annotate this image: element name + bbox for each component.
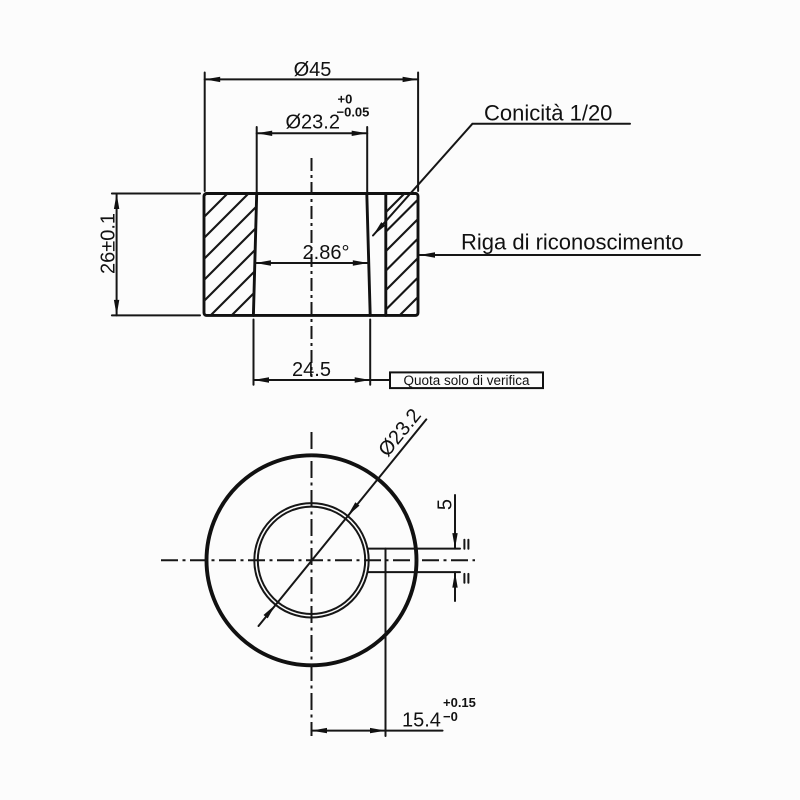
bottom view: outer circle: [207, 455, 417, 665]
dimension Ø23.2 top: dimension line with arrows: [257, 131, 368, 136]
dimension 15.4: tolerance +0.15 / -0: [443, 695, 476, 724]
svg-text:Quota solo di verifica: Quota solo di verifica: [403, 373, 530, 388]
dimension 5: value text (rotated): [435, 499, 457, 510]
svg-text:24.5: 24.5: [292, 359, 331, 381]
section: slot edge line: [384, 194, 387, 316]
bottom view: horizontal centerline: [161, 559, 475, 561]
slot: end edge / extension line: [385, 549, 387, 736]
slot: bottom edge line: [368, 571, 460, 573]
leader Riga di riconoscimento: line and arrow: [420, 252, 701, 257]
dimension Ø23.2 top: tolerance +0 / -0.05: [337, 92, 370, 120]
dimension 2.86 deg: dimension line with arrows: [255, 260, 368, 265]
svg-text:Ø23.2: Ø23.2: [286, 112, 340, 134]
note box connector: [370, 379, 390, 381]
svg-text:15.4: 15.4: [402, 710, 441, 732]
svg-text:2.86°: 2.86°: [303, 242, 350, 264]
leader Conicita 1/20: label text: [484, 101, 612, 126]
svg-text:Conicità 1/20: Conicità 1/20: [484, 101, 612, 126]
section: bore left wall (tapered): [253, 194, 256, 316]
dimension 26+-0.1: extension lines: [112, 194, 200, 316]
section view: part outline: [204, 194, 418, 316]
dimension 5: upper dimension line with arrow: [452, 495, 457, 549]
dimension 15.4: value text: [402, 710, 441, 732]
dimension Ø45: dimension line with arrows: [205, 77, 418, 82]
dimension Ø23.2 bottom: diagonal leader line: [259, 419, 427, 626]
symmetry marks (double ticks) upper: [464, 540, 468, 549]
dimension 2.86 deg: value text: [303, 242, 350, 264]
dimension Ø23.2 top: extension lines: [257, 127, 368, 192]
svg-text:5: 5: [435, 499, 457, 510]
svg-text:+0.15: +0.15: [443, 695, 476, 710]
dimension Ø45: value text: [294, 59, 332, 81]
leader Conicita 1/20: leader line and arrow: [373, 124, 630, 236]
dimension 26+-0.1: value text (rotated): [98, 213, 120, 274]
section: vertical centerline: [311, 158, 313, 377]
bottom view: vertical centerline: [311, 432, 313, 736]
dimension 24.5: value text: [292, 359, 331, 381]
slot: top edge line: [368, 548, 460, 550]
svg-text:−0.05: −0.05: [337, 105, 370, 120]
dimension 24.5: dimension line with arrows: [254, 377, 371, 382]
leader Riga di riconoscimento: label text: [461, 230, 684, 255]
dimension 5: lower dimension line with arrow: [452, 572, 457, 601]
svg-text:Ø45: Ø45: [294, 59, 332, 81]
dimension 26+-0.1: dimension line with arrows: [114, 194, 119, 316]
dimension 15.4: dimension line with arrows: [312, 728, 443, 733]
symmetry marks (double ticks) lower: [464, 574, 468, 583]
dimension 24.5: extension lines: [254, 320, 371, 385]
bottom view: bore circle Ø24.5: [254, 503, 368, 617]
bottom view: bore circle Ø23.2: [258, 507, 365, 614]
dimension Ø23.2 top: value text: [286, 112, 340, 134]
svg-text:26±0.1: 26±0.1: [98, 213, 120, 274]
section: bore right wall taper line: [367, 194, 370, 316]
note box Quota solo di verifica: [390, 372, 543, 388]
svg-text:Riga di riconoscimento: Riga di riconoscimento: [461, 230, 684, 255]
svg-text:−0: −0: [443, 709, 458, 724]
dimension Ø45: extension lines: [205, 73, 418, 192]
dimension Ø23.2 bottom: value text (rotated): [374, 405, 425, 461]
hatch: right wall: [268, 180, 555, 330]
